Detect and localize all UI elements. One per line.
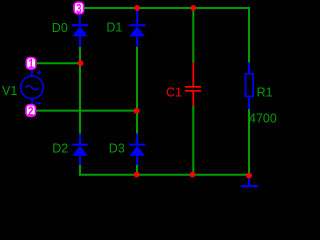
junction node 1 / bridge left	[78, 60, 84, 66]
resistor R1	[246, 62, 254, 109]
svg-text:D3: D3	[109, 142, 125, 156]
svg-text:V1: V1	[2, 84, 17, 98]
wire node 2 to bridge right column	[36, 110, 138, 112]
diode D0	[72, 15, 88, 47]
node 3	[74, 2, 84, 16]
wire top: node 3 to R1 column corner	[85, 7, 250, 63]
junction bottom C1	[190, 172, 196, 178]
junction ground / R1	[246, 173, 252, 179]
svg-text:1: 1	[28, 57, 34, 71]
wire node 1 to bridge left column	[37, 62, 81, 64]
capacitor C1	[185, 63, 201, 107]
svg-text:2: 2	[28, 104, 34, 118]
svg-text:R1: R1	[257, 85, 273, 99]
svg-text:4700: 4700	[249, 111, 277, 125]
junction node 2 / bridge right	[134, 108, 140, 114]
wire bridge left column (D0 to D2)	[79, 47, 81, 134]
node 2	[26, 104, 36, 118]
svg-text:3: 3	[76, 2, 82, 16]
svg-text:D1: D1	[106, 21, 122, 35]
svg-text:C1: C1	[166, 85, 182, 99]
wire C1 column top	[192, 8, 194, 63]
wire R1 column bottom	[248, 109, 250, 175]
node 1	[26, 57, 35, 71]
ground	[241, 178, 258, 186]
junction top D1	[134, 5, 140, 11]
junction bottom D3	[134, 172, 140, 178]
voltage source V1	[21, 70, 44, 104]
wire C1 column bottom	[192, 106, 194, 175]
diode D2	[72, 134, 88, 165]
svg-text:D0: D0	[52, 21, 68, 35]
diode D3	[129, 134, 145, 165]
wire bridge right column (D1 to D3)	[136, 47, 138, 134]
wire bottom rail: D2 to ground	[79, 165, 250, 175]
junction top C1	[191, 5, 197, 11]
svg-text:D2: D2	[52, 142, 68, 156]
wire bridge right column bottom (D3 to bottom rail)	[136, 165, 138, 174]
diode D1	[129, 9, 145, 47]
